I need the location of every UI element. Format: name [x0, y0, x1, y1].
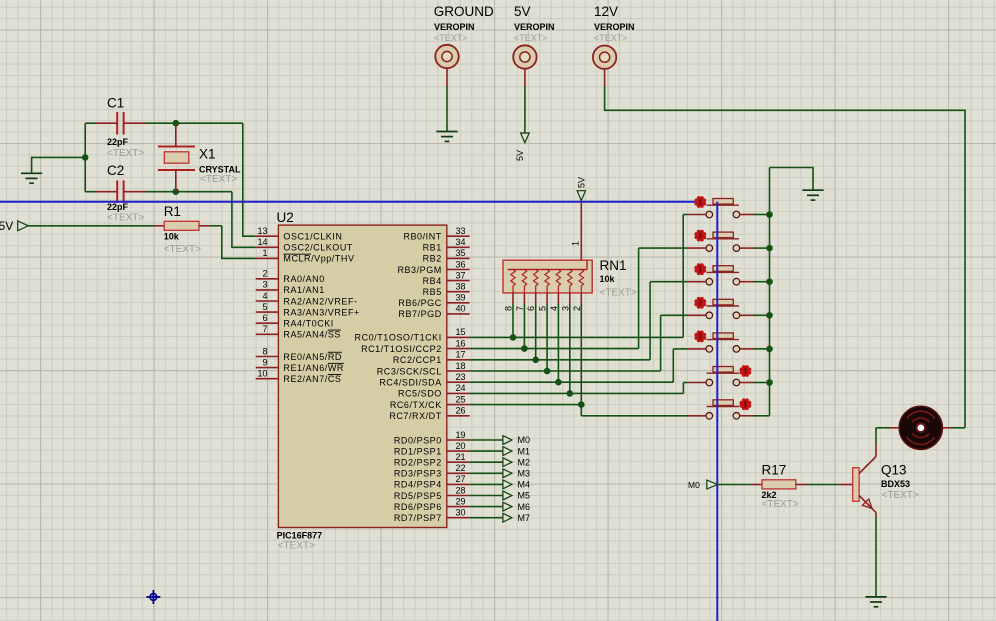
push button SW5	[706, 333, 740, 352]
pin 26 RC7/RX/DT stub	[389, 406, 469, 422]
pin 4 RN1 stub	[549, 293, 559, 382]
svg-text:15: 15	[456, 327, 466, 337]
pin 39 RB6/PGC right stub	[398, 293, 469, 309]
svg-text:RC2/CCP1: RC2/CCP1	[393, 355, 442, 365]
button SW2 state indicator	[694, 230, 706, 242]
svg-text:5: 5	[262, 302, 267, 312]
wire GROUND pin to ground	[446, 68, 448, 131]
svg-text:39: 39	[456, 293, 466, 303]
svg-text:RA1/AN1: RA1/AN1	[283, 285, 324, 295]
pin 34 RB1 right stub	[423, 237, 470, 253]
wire SW1 right lead	[740, 214, 770, 216]
node SW3 ground-rail junction	[766, 278, 773, 285]
pin 1 1 left stub	[256, 248, 355, 264]
svg-text:16: 16	[456, 338, 466, 348]
pin 4 RA2/AN2/VREF- left stub	[256, 291, 358, 307]
pin 14 OSC2/CLKOUT left stub	[256, 237, 353, 253]
capacitor C2 labels	[107, 163, 144, 224]
pin 30 RD7/PSP7 stub and wire to M7	[394, 508, 503, 524]
svg-text:<TEXT>: <TEXT>	[107, 148, 144, 159]
svg-text:2: 2	[572, 306, 582, 311]
svg-text:RD3/PSP3: RD3/PSP3	[394, 469, 442, 479]
svg-text:1: 1	[570, 241, 580, 246]
wire R1 to pin 1 MCLR	[199, 226, 256, 259]
svg-text:M3: M3	[518, 469, 531, 479]
button SW5 state indicator	[694, 331, 706, 343]
ground symbol left	[21, 173, 42, 183]
svg-text:RB3/PGM: RB3/PGM	[397, 265, 441, 275]
pin 33 RB0/INT right stub	[403, 226, 469, 242]
button SW7 state indicator	[740, 398, 752, 410]
pin 22 RD3/PSP3 stub and wire to M3	[394, 463, 503, 479]
wire SW6 riser to RC row	[682, 383, 684, 394]
wire net RC1 row	[470, 348, 639, 350]
svg-text:<TEXT>: <TEXT>	[164, 244, 201, 255]
svg-text:25: 25	[456, 394, 466, 404]
terminal M0 arrow	[688, 480, 717, 490]
svg-text:23: 23	[456, 372, 466, 382]
svg-text:RD1/PSP1: RD1/PSP1	[394, 446, 442, 456]
pin 6 RN1 stub	[526, 293, 536, 360]
wire blue vertical	[716, 202, 718, 621]
svg-text:<TEXT>: <TEXT>	[882, 490, 919, 501]
pin 5 RA3/AN3/VREF+ left stub	[256, 302, 360, 318]
resistor network RN1 body	[503, 260, 592, 293]
push button SW3	[706, 266, 740, 285]
node RC1/RN1 junction	[521, 345, 528, 352]
svg-text:RC0/T1OSO/T1CKI: RC0/T1OSO/T1CKI	[355, 333, 442, 343]
pin 38 RB5 right stub	[423, 282, 470, 298]
svg-text:RC3/SCK/SCL: RC3/SCK/SCL	[377, 366, 442, 376]
svg-text:35: 35	[456, 248, 466, 258]
svg-text:VEROPIN: VEROPIN	[594, 22, 635, 32]
wire motor left to collector	[876, 428, 899, 444]
svg-text:2: 2	[262, 269, 267, 279]
resistor R17	[762, 480, 796, 489]
pin 16 RC1/T1OSI/CCP2 stub	[361, 338, 470, 354]
ground symbol below GROUND pin	[436, 132, 457, 142]
svg-text:40: 40	[456, 304, 466, 314]
pin 19 RD0/PSP0 stub and wire to M0	[394, 430, 503, 446]
svg-text:M7: M7	[518, 513, 531, 523]
pin 13 OSC1/CLKIN left stub	[256, 226, 343, 242]
svg-text:RB1: RB1	[423, 243, 442, 253]
push button SW6	[706, 367, 740, 386]
resistor RN1 element pin 5 zigzag	[545, 270, 549, 293]
RN1 labels	[600, 258, 637, 299]
svg-text:4: 4	[262, 291, 267, 301]
pin 9 RE1/AN6/ left stub	[256, 357, 344, 373]
svg-text:20: 20	[456, 441, 466, 451]
svg-text:RC7/RX/DT: RC7/RX/DT	[389, 411, 441, 421]
wire SW6 right lead	[740, 382, 770, 384]
push button SW1	[706, 199, 740, 218]
ground symbol below Q13	[865, 597, 886, 607]
svg-text:RE1/AN6/WR: RE1/AN6/WR	[283, 363, 344, 373]
pin 7 RN1 stub	[515, 293, 525, 349]
svg-text:X1: X1	[199, 147, 216, 162]
svg-text:13: 13	[257, 226, 267, 236]
connector GROUND veropin	[435, 45, 458, 68]
svg-text:RD2/PSP2: RD2/PSP2	[394, 458, 442, 468]
terminal GROUND veropin labels	[434, 4, 494, 43]
node crystal top junction	[173, 120, 180, 127]
wire 5V pin down	[524, 69, 526, 133]
svg-text:29: 29	[456, 496, 466, 506]
wire SW2 right lead	[740, 247, 770, 249]
pin 10 RE2/AN7/ left stub	[256, 369, 342, 385]
push button SW2	[706, 232, 740, 251]
node RC6/RN1 junction	[578, 401, 585, 408]
svg-text:<TEXT>: <TEXT>	[434, 33, 468, 43]
wire SW7 left lead	[581, 405, 706, 416]
motor (DC motor)	[899, 406, 942, 449]
svg-text:Q13: Q13	[881, 463, 907, 478]
svg-text:8: 8	[262, 346, 267, 356]
wire motor right to 12V rail	[943, 427, 965, 429]
svg-text:5V: 5V	[0, 219, 13, 233]
svg-text:M6: M6	[518, 502, 531, 512]
svg-text:VEROPIN: VEROPIN	[514, 22, 555, 32]
svg-text:3: 3	[560, 306, 570, 311]
svg-text:34: 34	[456, 237, 466, 247]
resistor RN1 element pin 6 zigzag	[534, 270, 538, 293]
pin 35 RB2 right stub	[423, 248, 470, 264]
svg-text:8: 8	[504, 306, 514, 311]
terminal M6 arrow	[503, 502, 530, 512]
svg-text:RA5/AN4/SS: RA5/AN4/SS	[283, 330, 341, 340]
resistor RN1 element pin 8 zigzag	[511, 270, 515, 293]
button SW4 state indicator	[694, 297, 706, 309]
wire SW1 left lead	[683, 214, 706, 216]
svg-text:PIC16F877: PIC16F877	[277, 531, 323, 541]
svg-text:M1: M1	[518, 446, 531, 456]
node RC2/RN1 junction	[532, 357, 539, 364]
pin 28 RD5/PSP5 stub and wire to M5	[394, 485, 503, 501]
resistor R1 labels	[164, 204, 201, 255]
svg-text:33: 33	[456, 226, 466, 236]
push button SW7	[706, 400, 740, 419]
op-amp U2 PIC16F877 body	[278, 225, 446, 527]
pin 23 RC4/SDI/SDA stub	[379, 372, 469, 388]
wire R17 to Q13 base	[796, 484, 853, 486]
resistor RN1 element pin 4 zigzag	[556, 270, 560, 293]
node RC4/RN1 junction	[555, 379, 562, 386]
node RC0/RN1 junction	[510, 334, 517, 341]
svg-text:17: 17	[456, 350, 466, 360]
wire net RC3 row	[470, 370, 661, 372]
connector 12V veropin	[593, 46, 616, 69]
wire C1 right to OSC1 riser	[146, 122, 243, 124]
capacitor C1 labels	[107, 96, 144, 159]
svg-text:RD7/PSP7: RD7/PSP7	[394, 513, 442, 523]
svg-text:M0: M0	[688, 480, 700, 490]
svg-text:M5: M5	[518, 491, 531, 501]
svg-text:OSC2/CLKOUT: OSC2/CLKOUT	[283, 243, 353, 253]
node SW1 ground-rail junction	[766, 211, 773, 218]
svg-text:RA0/AN0: RA0/AN0	[283, 274, 324, 284]
pin 40 RB7/PGD right stub	[398, 304, 469, 320]
pin 6 RA4/T0CKI left stub	[256, 313, 334, 329]
wire net RC2 row	[470, 359, 650, 361]
svg-text:M0: M0	[518, 435, 531, 445]
svg-text:10k: 10k	[164, 231, 180, 241]
svg-text:22pF: 22pF	[107, 137, 129, 147]
resistor RN1 element pin 3 zigzag	[568, 270, 572, 293]
wire SW5 left lead	[673, 348, 706, 350]
svg-text:12V: 12V	[594, 4, 618, 19]
pin 36 RB3/PGM right stub	[397, 259, 469, 275]
svg-text:1: 1	[262, 248, 267, 258]
svg-text:19: 19	[456, 430, 466, 440]
node SW5 ground-rail junction	[766, 346, 773, 353]
ground symbol top right	[802, 190, 823, 200]
power terminal 5V above RN1	[577, 177, 587, 201]
svg-text:OSC1/CLKIN: OSC1/CLKIN	[283, 232, 342, 242]
resistor R1	[164, 221, 199, 230]
wire M0 to R17	[717, 484, 762, 486]
terminal 5V veropin labels	[514, 4, 555, 43]
svg-text:6: 6	[262, 313, 267, 323]
wire SW3 right lead	[740, 281, 770, 283]
wire net RC6 row	[470, 404, 582, 406]
svg-text:RC5/SDO: RC5/SDO	[398, 389, 442, 399]
pin 24 RC5/SDO stub	[398, 383, 470, 399]
wire SW6 left lead	[683, 382, 706, 384]
pin 1 RN1 riser to 5V rail	[570, 203, 581, 260]
wire riser to pin 14	[232, 192, 256, 248]
pin 27 RD4/PSP4 stub and wire to M4	[394, 474, 503, 490]
svg-text:R1: R1	[164, 204, 181, 219]
origin marker	[146, 590, 160, 604]
svg-text:6: 6	[526, 306, 536, 311]
svg-text:37: 37	[456, 270, 466, 280]
push button SW4	[706, 299, 740, 318]
svg-text:RE2/AN7/CS: RE2/AN7/CS	[283, 374, 341, 384]
svg-text:5V: 5V	[514, 4, 531, 19]
svg-text:<TEXT>: <TEXT>	[278, 541, 315, 552]
svg-text:7: 7	[515, 306, 525, 311]
pin 7 RA5/AN4/ left stub	[256, 324, 341, 340]
svg-text:RC4/SDI/SDA: RC4/SDI/SDA	[379, 378, 442, 388]
pin 2 RA0/AN0 left stub	[256, 269, 325, 285]
wire to left ground	[32, 157, 86, 173]
svg-text:RB6/PGC: RB6/PGC	[398, 298, 441, 308]
pin 37 RB4 right stub	[423, 270, 470, 286]
svg-text:RB2: RB2	[423, 254, 442, 264]
wire net RC0 row	[470, 336, 684, 338]
node SW4 ground-rail junction	[766, 312, 773, 319]
svg-text:18: 18	[456, 361, 466, 371]
wire SW1 riser to RC row	[682, 215, 684, 338]
svg-text:10: 10	[257, 369, 267, 379]
wire blue horizontal 5V rail	[0, 201, 701, 203]
wire net RC4 row	[470, 381, 674, 383]
wire SW5 right lead	[740, 348, 770, 350]
power terminal 5V arrow	[515, 133, 529, 161]
node caps-ground junction	[82, 154, 89, 161]
terminal M5 arrow	[503, 491, 530, 501]
wire SW4 right lead	[740, 314, 770, 316]
power terminal 5V left arrow	[0, 219, 28, 233]
svg-text:VEROPIN: VEROPIN	[434, 22, 475, 32]
pin 29 RD6/PSP6 stub and wire to M6	[394, 496, 503, 512]
resistor RN1 element pin 7 zigzag	[522, 270, 526, 293]
pin 20 RD1/PSP1 stub and wire to M1	[394, 441, 503, 457]
node RC5/RN1 junction	[567, 390, 574, 397]
terminal M1 arrow	[503, 446, 530, 456]
wire SW2 left lead	[639, 247, 706, 249]
pin 15 RC0/T1OSO/T1CKI stub	[355, 327, 470, 343]
svg-text:U2: U2	[277, 210, 294, 225]
crystal X1 labels	[199, 147, 241, 185]
svg-text:38: 38	[456, 282, 466, 292]
svg-text:RB7/PGD: RB7/PGD	[398, 309, 441, 319]
wire C2 right to OSC2 riser	[146, 191, 232, 193]
svg-text:C1: C1	[107, 96, 124, 111]
pin 8 RE0/AN5/ left stub	[256, 346, 342, 362]
pin 21 RD2/PSP2 stub and wire to M2	[394, 452, 503, 468]
svg-text:R17: R17	[762, 463, 787, 478]
wire SW7 right lead	[740, 415, 770, 417]
svg-text:RN1: RN1	[600, 258, 627, 273]
svg-text:36: 36	[456, 259, 466, 269]
svg-text:24: 24	[456, 383, 466, 393]
svg-text:RC6/TX/CK: RC6/TX/CK	[390, 400, 442, 410]
wire riser to pin 13	[243, 123, 256, 236]
crystal X1	[158, 123, 195, 192]
svg-text:GROUND: GROUND	[434, 4, 494, 19]
svg-text:<TEXT>: <TEXT>	[514, 33, 548, 43]
svg-text:RA3/AN3/VREF+: RA3/AN3/VREF+	[283, 307, 359, 317]
svg-text:RD5/PSP5: RD5/PSP5	[394, 491, 442, 501]
wire 12V pin to motor supply rail	[605, 69, 965, 428]
terminal M2 arrow	[503, 457, 530, 467]
pin 25 RC6/TX/CK stub	[390, 394, 470, 410]
svg-text:M2: M2	[518, 457, 531, 467]
svg-text:BDX53: BDX53	[881, 479, 910, 489]
pin 3 RN1 stub	[560, 293, 570, 394]
svg-text:RC1/T1OSI/CCP2: RC1/T1OSI/CCP2	[361, 344, 442, 354]
transistor Q13 labels	[881, 463, 919, 502]
svg-text:<TEXT>: <TEXT>	[600, 288, 637, 299]
svg-text:22pF: 22pF	[107, 202, 129, 212]
svg-text:C2: C2	[107, 163, 124, 178]
button SW1 state indicator	[694, 196, 706, 208]
capacitor C2	[95, 180, 146, 203]
svg-text:10k: 10k	[600, 274, 616, 284]
svg-text:5V: 5V	[515, 150, 525, 161]
terminal M3 arrow	[503, 469, 530, 479]
terminal M0 arrow	[503, 435, 530, 445]
connector 5V veropin	[513, 45, 536, 68]
svg-text:5: 5	[538, 306, 548, 311]
wire SW3 left lead	[650, 281, 706, 283]
svg-text:<TEXT>: <TEXT>	[762, 499, 799, 510]
svg-text:RB4: RB4	[423, 276, 442, 286]
wire 5V to R1	[28, 225, 164, 227]
wire net RC5 row	[470, 392, 684, 394]
wire SW4 left lead	[661, 314, 706, 316]
svg-text:3: 3	[262, 280, 267, 290]
node SW2 ground-rail junction	[766, 245, 773, 252]
wire caps left vertical	[85, 123, 95, 192]
svg-text:RE0/AN5/RD: RE0/AN5/RD	[283, 352, 342, 362]
svg-text:RA4/T0CKI: RA4/T0CKI	[283, 319, 333, 329]
svg-text:MCLR/Vpp/THV: MCLR/Vpp/THV	[283, 254, 354, 264]
capacitor C1	[95, 112, 146, 135]
node SW6 ground-rail junction	[766, 379, 773, 386]
svg-text:4: 4	[549, 306, 559, 311]
wire SW4 riser to RC row	[660, 315, 662, 371]
wire Q13 emitter to ground	[875, 513, 877, 597]
wire SW3 riser to RC row	[649, 282, 651, 360]
svg-text:14: 14	[257, 237, 267, 247]
pin 18 RC3/SCK/SCL stub	[377, 361, 470, 377]
pin 8 RN1 stub	[504, 293, 514, 338]
pin 2 RN1 stub	[572, 293, 582, 405]
resistor R17 labels	[762, 463, 799, 511]
node crystal bottom junction	[173, 188, 180, 195]
svg-text:CRYSTAL: CRYSTAL	[199, 164, 241, 174]
transistor Q13	[853, 444, 876, 513]
svg-text:<TEXT>: <TEXT>	[107, 213, 144, 224]
wire SW2 riser to RC row	[638, 248, 640, 349]
button SW6 state indicator	[740, 365, 752, 377]
svg-text:26: 26	[456, 406, 466, 416]
wire SW5 riser to RC row	[672, 349, 674, 382]
svg-text:RB5: RB5	[423, 287, 442, 297]
svg-text:RB0/INT: RB0/INT	[403, 232, 441, 242]
svg-text:<TEXT>: <TEXT>	[200, 174, 237, 185]
svg-text:27: 27	[456, 474, 466, 484]
svg-text:7: 7	[262, 324, 267, 334]
svg-text:21: 21	[456, 452, 466, 462]
button SW3 state indicator	[694, 263, 706, 275]
svg-text:30: 30	[456, 508, 466, 518]
svg-text:5V: 5V	[577, 177, 587, 188]
resistor RN1 element pin 2 zigzag	[579, 270, 583, 293]
svg-text:RA2/AN2/VREF-: RA2/AN2/VREF-	[283, 296, 357, 306]
wire ground rail to ground symbol	[770, 168, 814, 190]
node RC3/RN1 junction	[544, 368, 551, 375]
terminal M4 arrow	[503, 480, 530, 490]
wire ground rail vertical	[769, 168, 771, 416]
pin 17 RC2/CCP1 stub	[393, 350, 470, 366]
svg-text:RD4/PSP4: RD4/PSP4	[394, 480, 442, 490]
svg-text:M4: M4	[518, 480, 531, 490]
RN1 internal bus	[508, 260, 588, 269]
svg-text:28: 28	[456, 485, 466, 495]
svg-text:9: 9	[262, 357, 267, 367]
svg-text:RD0/PSP0: RD0/PSP0	[394, 435, 442, 445]
pin 3 RA1/AN1 left stub	[256, 280, 325, 296]
pin 5 RN1 stub	[538, 293, 548, 371]
terminal M7 arrow	[503, 513, 530, 523]
svg-text:22: 22	[456, 463, 466, 473]
terminal 12V veropin labels	[594, 4, 635, 43]
svg-text:<TEXT>: <TEXT>	[594, 33, 628, 43]
svg-text:RD6/PSP6: RD6/PSP6	[394, 502, 442, 512]
